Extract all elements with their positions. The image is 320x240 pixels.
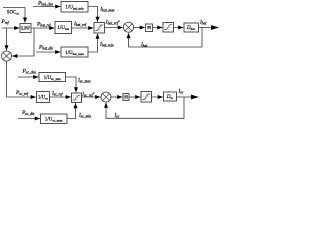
svg-text:Pbat_dis: Pbat_dis (38, 44, 53, 50)
svg-text:Ibat: Ibat (140, 42, 148, 48)
svg-text:1/Usc: 1/Usc (38, 96, 49, 101)
svg-text:Psc_dis: Psc_dis (21, 110, 35, 116)
svg-text:Isc: Isc (178, 88, 184, 94)
svg-text:Isc: Isc (114, 113, 120, 119)
svg-text:1/Ubat_max: 1/Ubat_max (65, 51, 84, 56)
svg-text:Pref: Pref (1, 19, 10, 25)
svg-text:Isc_max: Isc_max (77, 78, 91, 84)
svg-text:LPF: LPF (21, 26, 30, 31)
svg-text:1/Ubat: 1/Ubat (57, 26, 69, 31)
svg-text:Ibat_min: Ibat_min (99, 41, 114, 47)
svg-text:PI: PI (147, 26, 151, 30)
svg-text:1/Ubat_min: 1/Ubat_min (65, 5, 84, 10)
svg-text:Ibat_ref*: Ibat_ref* (105, 20, 120, 26)
svg-text:Ibat_max: Ibat_max (99, 7, 115, 13)
svg-text:Isc_ref*: Isc_ref* (81, 92, 94, 98)
svg-text:1/Usc_min: 1/Usc_min (44, 76, 61, 81)
svg-text:Pbat_ref: Pbat_ref (36, 22, 52, 28)
svg-text:Psc_ref: Psc_ref (15, 90, 29, 96)
svg-text:Pbat_cha: Pbat_cha (37, 1, 53, 7)
svg-text:Isc_ref: Isc_ref (51, 91, 63, 97)
svg-text:Ibat: Ibat (199, 20, 207, 26)
svg-text:1/Usc_max: 1/Usc_max (45, 117, 63, 122)
svg-text:PI: PI (124, 95, 128, 99)
svg-text:Ibat_ref: Ibat_ref (73, 21, 87, 27)
svg-text:SOCsc: SOCsc (7, 10, 20, 15)
svg-text:Isc_min: Isc_min (78, 113, 91, 119)
svg-text:Psc_cha: Psc_cha (22, 68, 36, 74)
